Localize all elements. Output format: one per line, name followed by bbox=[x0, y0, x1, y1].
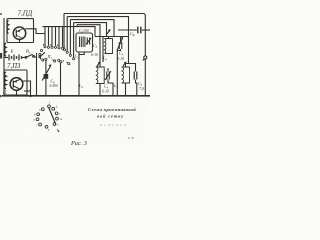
svg-text:П: П bbox=[2, 91, 7, 96]
svg-text:ж: ж bbox=[60, 117, 63, 121]
svg-text:вой сетку: вой сетку bbox=[97, 113, 124, 118]
svg-text:7,ПЗ: 7,ПЗ bbox=[7, 63, 21, 70]
svg-text:6-500: 6-500 bbox=[50, 84, 59, 88]
svg-text:6-10: 6-10 bbox=[102, 90, 109, 94]
svg-text:6-10: 6-10 bbox=[117, 57, 124, 61]
svg-text:Б: Б bbox=[10, 49, 14, 54]
svg-text:Схема приемниковой: Схема приемниковой bbox=[88, 107, 136, 112]
svg-text:Рис. 3: Рис. 3 bbox=[70, 140, 87, 147]
svg-text:6-10: 6-10 bbox=[91, 53, 98, 57]
svg-text:7,ПД: 7,ПД bbox=[18, 9, 33, 17]
